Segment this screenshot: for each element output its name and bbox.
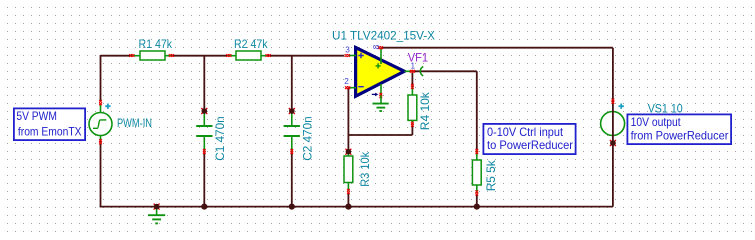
svg-text:PWM-IN: PWM-IN: [117, 117, 152, 130]
svg-text:R5 5k: R5 5k: [485, 160, 498, 191]
pin mark R4 top: [411, 84, 414, 89]
resistor R4: [408, 86, 417, 124]
svg-text:R4 10k: R4 10k: [419, 92, 432, 130]
wire output horizontal: [412, 70, 476, 72]
node C2 top junction: [289, 108, 295, 114]
svg-text:U1 TLV2402_15V-X: U1 TLV2402_15V-X: [332, 30, 435, 43]
wire C1 branch top: [203, 56, 205, 111]
text box 5V PWM from EmonTX: [14, 108, 85, 140]
svg-text:2: 2: [344, 77, 349, 86]
wire VS1 vertical through: [612, 48, 614, 207]
node R3 rail junction: [345, 204, 351, 210]
pin mark op-amp output pin1: [410, 70, 415, 73]
pin mark R1 left: [129, 54, 134, 57]
power arrow at pin4: [372, 93, 376, 95]
wire feedback horizontal: [348, 134, 412, 136]
capacitor C1: [196, 111, 212, 151]
pin mark C1 bottom: [203, 149, 206, 154]
wire top rail left segment: [101, 55, 132, 57]
svg-text:to PowerReducer: to PowerReducer: [487, 138, 573, 152]
svg-text:R3 10k: R3 10k: [359, 152, 372, 187]
node C1 rail junction: [201, 204, 207, 210]
svg-text:R2 47k: R2 47k: [234, 38, 268, 51]
svg-text:3: 3: [345, 46, 350, 55]
net marker curve: [420, 67, 423, 76]
voltage source VS1: [601, 104, 625, 136]
pin mark op-amp pin4: [379, 93, 382, 98]
op-amp U1: [348, 48, 412, 97]
svg-text:VF1: VF1: [408, 51, 428, 64]
pin mark op-amp pin3: [345, 54, 350, 57]
pin mark R3 bottom: [347, 189, 350, 194]
wire R5 bottom to rail: [476, 194, 478, 207]
wire C1 branch bottom: [203, 152, 205, 207]
wire op-amp pin8 to VS1 top rail: [381, 47, 613, 49]
wire op-amp pin2 drop to feedback node: [347, 88, 349, 152]
wire top rail R2 to op-amp pin3: [268, 55, 345, 57]
pin mark PWM bottom: [99, 139, 102, 144]
wire C2 branch bottom: [291, 152, 293, 207]
pin mark C2 bottom: [290, 149, 293, 154]
svg-text:from PowerReducer: from PowerReducer: [631, 129, 729, 143]
wire R3 bottom to rail: [347, 193, 349, 207]
ground on bottom rail: [148, 207, 165, 224]
svg-text:C1 470n: C1 470n: [214, 116, 227, 161]
pin mark op-amp pin8: [378, 46, 383, 49]
svg-text:5V PWM: 5V PWM: [16, 109, 57, 123]
pin mark R1 right: [169, 54, 174, 57]
text box 10V output: [627, 114, 731, 144]
text box 0-10V Ctrl input: [483, 124, 575, 154]
wire output drop to R5: [476, 71, 478, 151]
voltage source PWM-IN: [89, 104, 112, 142]
svg-text:R1 47k: R1 47k: [139, 38, 173, 51]
pin mark R5 top: [475, 149, 478, 154]
wire left drop from rail to PWM source: [100, 55, 102, 102]
pin mark R2 left: [226, 54, 231, 57]
node C1 top junction: [201, 108, 207, 114]
wire bottom rail: [100, 206, 613, 208]
wire R4 bottom to feedback node: [411, 124, 413, 135]
pin mark R2 right: [266, 54, 271, 57]
node feedback junction: [345, 149, 351, 155]
wire C2 branch top: [291, 56, 293, 111]
resistor R2: [228, 51, 268, 60]
pin mark R5 bottom: [475, 190, 478, 195]
node VS1 bottom junction: [610, 140, 616, 146]
resistor R1: [132, 51, 172, 60]
wire PWM source bottom to rail: [100, 142, 102, 207]
ground under op-amp: [373, 96, 389, 112]
pin mark R4 bottom: [411, 122, 414, 127]
wire top rail between R1 and R2: [172, 55, 228, 57]
node R5 rail junction: [474, 204, 480, 210]
node C2 rail junction: [289, 204, 295, 210]
capacitor C2: [284, 111, 300, 151]
svg-text:10V output: 10V output: [631, 115, 682, 129]
resistor R5: [472, 152, 481, 194]
svg-text:0-10V Ctrl input: 0-10V Ctrl input: [487, 125, 564, 139]
svg-text:C2 470n: C2 470n: [302, 116, 315, 161]
svg-text:8: 8: [372, 44, 381, 49]
node ground rail junction: [154, 204, 160, 210]
svg-text:from EmonTX: from EmonTX: [18, 124, 82, 138]
pin mark VS1 top: [612, 99, 615, 104]
wire output node down to R4: [411, 71, 413, 86]
pin mark PWM top: [99, 100, 102, 105]
pin mark op-amp pin2: [345, 86, 350, 89]
resistor R3: [344, 152, 353, 192]
